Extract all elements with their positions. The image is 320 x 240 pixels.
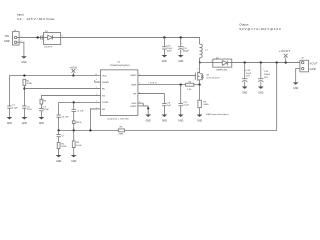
svg-text:R5: R5: [61, 143, 65, 145]
svg-text:R3: R3: [43, 100, 47, 102]
svg-text:VOUT: VOUT: [310, 62, 318, 65]
svg-text:100µF: 100µF: [264, 74, 271, 76]
svg-text:1.0k: 1.0k: [187, 89, 192, 91]
svg-text:GND: GND: [4, 40, 10, 43]
svg-text:R8: R8: [120, 127, 124, 129]
svg-text:0.040: 0.040: [203, 104, 209, 106]
svg-text:SS2P5: SS2P5: [44, 47, 53, 49]
svg-text:249k: 249k: [119, 134, 125, 136]
svg-text:100V: 100V: [167, 51, 173, 53]
svg-text:COMP: COMP: [102, 102, 109, 104]
svg-text:ISNS: ISNS: [149, 83, 158, 85]
svg-text:SS: SS: [102, 95, 105, 97]
svg-text:3,2 ... 14,5 V / 40,0 Vmax: 3,2 ... 14,5 V / 40,0 Vmax: [17, 17, 55, 21]
svg-text:1: 1: [96, 87, 97, 89]
svg-text:GND: GND: [132, 103, 137, 105]
svg-text:2: 2: [96, 94, 97, 96]
svg-text:fsw(nom) = 700 kHz: fsw(nom) = 700 kHz: [107, 119, 129, 121]
svg-text:25V: 25V: [246, 76, 250, 78]
svg-text:0.1µF: 0.1µF: [183, 105, 189, 107]
svg-text:J2: J2: [301, 58, 304, 60]
svg-text:9,0 V @ 1,7 A / 15,0 V @ 1,0 A: 9,0 V @ 1,7 A / 15,0 V @ 1,0 A: [239, 27, 280, 31]
svg-text:R6: R6: [76, 142, 80, 144]
svg-text:4.7µF: 4.7µF: [12, 107, 18, 109]
svg-text:L1: L1: [205, 50, 208, 52]
svg-text:3: 3: [96, 79, 97, 81]
svg-text:1: 1: [297, 61, 298, 63]
svg-text:+VIN: +VIN: [69, 66, 77, 70]
svg-text:10A Current Limit (min.): 10A Current Limit (min.): [206, 113, 229, 116]
svg-text:C6 1nF: C6 1nF: [61, 116, 69, 118]
svg-text:4.99k: 4.99k: [27, 83, 33, 85]
svg-text:R9 2k: R9 2k: [76, 122, 83, 124]
svg-text:330µF: 330µF: [183, 51, 190, 53]
svg-text:C7: C7: [62, 136, 66, 138]
svg-text:1µF: 1µF: [167, 105, 171, 107]
svg-text:+C13: +C13: [245, 70, 251, 72]
svg-text:TPS40210QDGQRQ1: TPS40210QDGQRQ1: [110, 65, 131, 67]
svg-text:47nF: 47nF: [27, 109, 33, 111]
svg-text:+VOUT: +VOUT: [279, 49, 290, 53]
svg-text:24.9k: 24.9k: [61, 146, 67, 148]
svg-text:GND: GND: [310, 68, 316, 71]
svg-text:BP: BP: [133, 94, 136, 96]
svg-text:C14: C14: [264, 71, 269, 73]
svg-text:Output: Output: [239, 23, 248, 27]
svg-text:VIN: VIN: [5, 35, 9, 38]
svg-text:RC: RC: [102, 89, 106, 91]
svg-text:U1: U1: [118, 62, 122, 64]
svg-text:2: 2: [211, 61, 212, 63]
svg-text:4.7µF: 4.7µF: [43, 109, 49, 111]
svg-text:10: 10: [95, 74, 97, 76]
svg-text:C5 1nF: C5 1nF: [77, 110, 85, 112]
svg-text:VDD: VDD: [102, 75, 107, 77]
svg-text:PWPD: PWPD: [130, 106, 137, 108]
svg-text:SIR404DP: SIR404DP: [206, 77, 220, 79]
svg-text:+: +: [181, 43, 183, 45]
svg-text:SS8P5-M3: SS8P5-M3: [216, 70, 227, 72]
svg-text:FB: FB: [102, 109, 105, 111]
svg-text:DIS/EN: DIS/EN: [102, 82, 109, 84]
svg-text:3: 3: [197, 69, 198, 71]
svg-text:10.0k: 10.0k: [76, 145, 82, 147]
svg-text:16V: 16V: [264, 77, 268, 79]
svg-text:GDRV: GDRV: [130, 75, 137, 77]
svg-text:Input: Input: [17, 13, 24, 17]
svg-text:ISNS: ISNS: [131, 85, 137, 87]
svg-text:47µF: 47µF: [246, 73, 252, 75]
svg-text:R1: R1: [27, 80, 31, 82]
